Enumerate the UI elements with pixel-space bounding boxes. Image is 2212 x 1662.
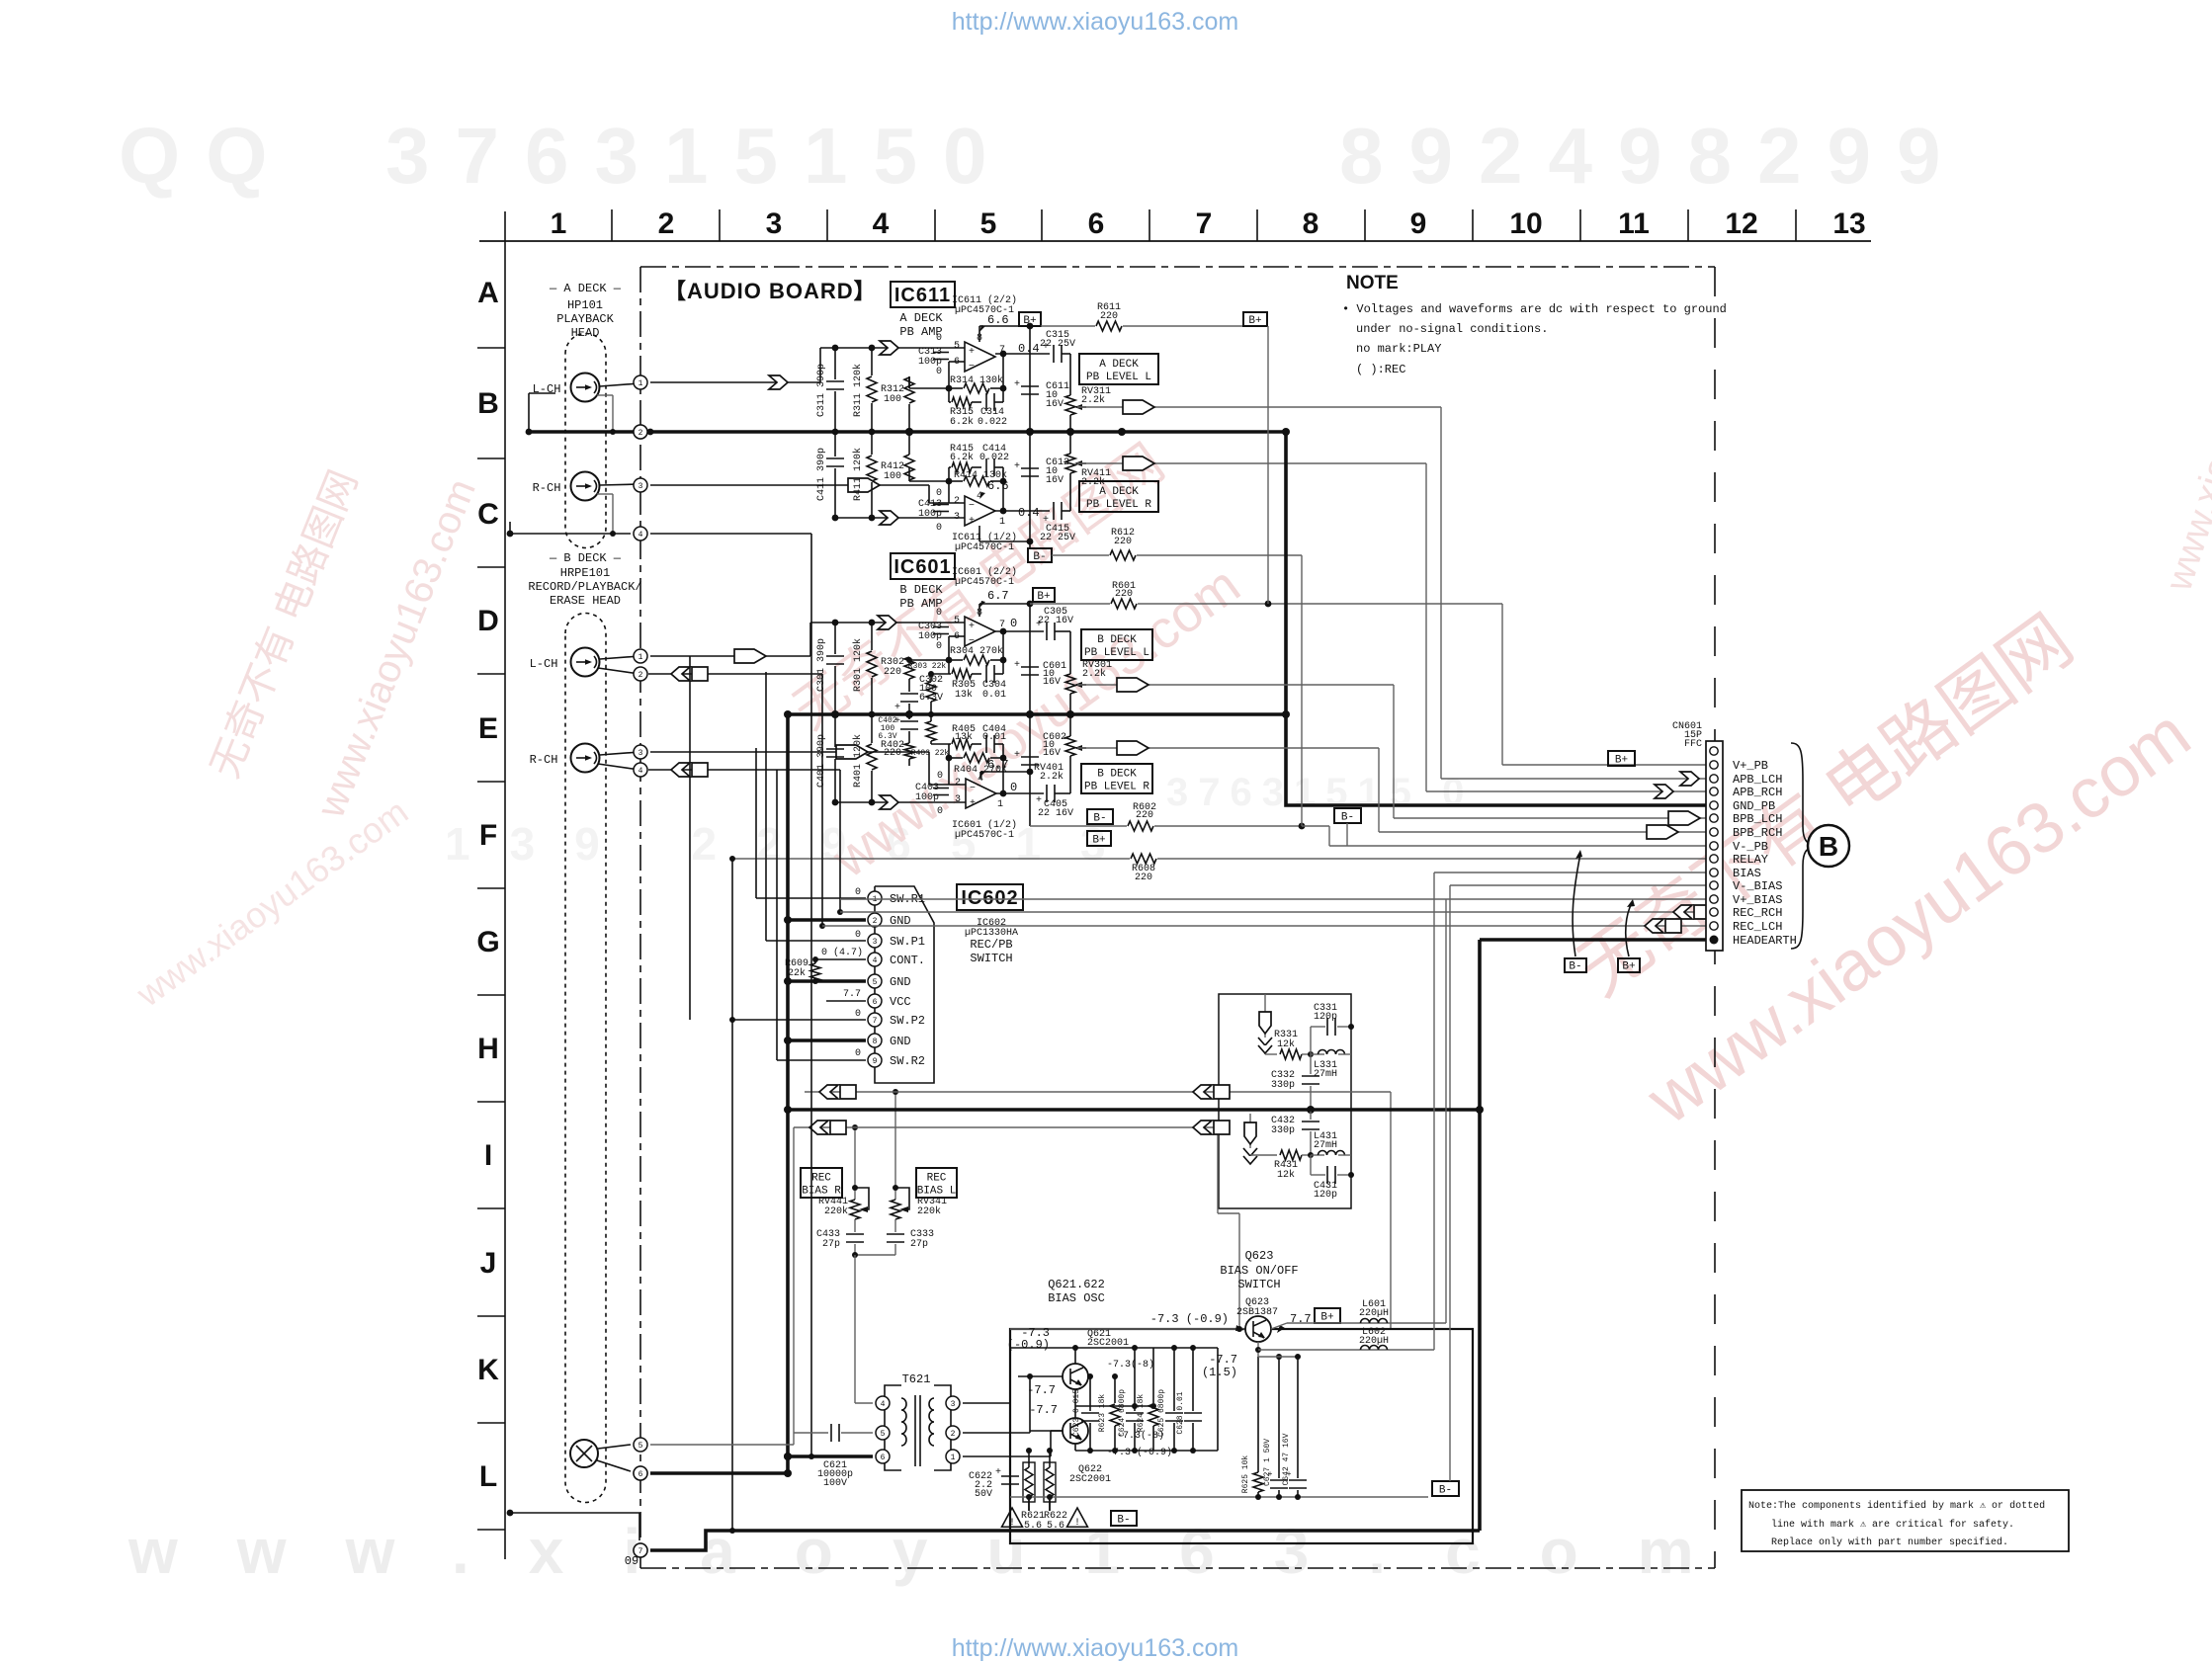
- svg-text:SW.P2: SW.P2: [890, 1014, 925, 1028]
- wire erase head to pins: [597, 1445, 631, 1471]
- resistor R623: [1098, 1373, 1120, 1451]
- svg-text:6.6: 6.6: [987, 313, 1009, 327]
- svg-text:B-: B-: [1439, 1484, 1452, 1496]
- wire IC602 pin4 cont: [815, 958, 866, 960]
- svg-text:+: +: [969, 347, 975, 358]
- capacitor C331: [1311, 1003, 1354, 1054]
- chevron rec lch: [671, 667, 708, 681]
- svg-text:5: 5: [881, 1430, 886, 1439]
- svg-text:0: 0: [855, 1009, 861, 1020]
- wire T621 pin4 feed: [855, 1396, 873, 1403]
- svg-text:-7.7: -7.7: [1027, 1383, 1056, 1397]
- svg-text:-7.7: -7.7: [1029, 1403, 1058, 1417]
- resistor R622 fusible: [1044, 1448, 1056, 1511]
- svg-text:50V: 50V: [975, 1489, 992, 1500]
- wire C333 to C433 join: [852, 1252, 895, 1396]
- label Q623 part: [1236, 1297, 1278, 1318]
- svg-text:6: 6: [873, 998, 878, 1007]
- IC602 label box: [957, 884, 1023, 910]
- svg-text:QQ: QQ: [119, 112, 293, 200]
- potentiometer RV441: [818, 1124, 869, 1232]
- safety note box: [1742, 1490, 2069, 1551]
- inductor L431: [1311, 1131, 1351, 1155]
- svg-text:100p: 100p: [918, 357, 942, 368]
- svg-text:7.7: 7.7: [1290, 1312, 1312, 1326]
- opamp IC611b: [965, 342, 995, 373]
- svg-text:REC: REC: [927, 1172, 947, 1184]
- resistor R311: [852, 345, 877, 436]
- svg-text:Q623: Q623: [1245, 1249, 1274, 1263]
- wire A-deck head lower shield: [507, 522, 631, 537]
- supply label B+ a1: [1019, 312, 1041, 327]
- IC611 label box: [891, 282, 955, 307]
- svg-text:+: +: [1036, 795, 1042, 806]
- svg-text:12k: 12k: [1277, 1169, 1295, 1181]
- svg-text:R623 18k: R623 18k: [1098, 1394, 1107, 1433]
- svg-text:GND_PB: GND_PB: [1733, 799, 1775, 813]
- pin 6 erase redraw: [634, 1466, 647, 1480]
- svg-text:120p: 120p: [1314, 1190, 1337, 1201]
- svg-text:SWITCH: SWITCH: [1237, 1278, 1280, 1291]
- pin 6 erase: [634, 1466, 647, 1480]
- IC601 sublabel: [899, 583, 943, 611]
- A-deck playback head R-CH: [533, 472, 600, 501]
- svg-text:GND: GND: [890, 1035, 911, 1048]
- svg-text:27p: 27p: [910, 1239, 928, 1250]
- supply label B+ a2: [1243, 312, 1267, 327]
- svg-text:7: 7: [1196, 208, 1213, 240]
- svg-text:220: 220: [884, 667, 901, 678]
- svg-text:K: K: [477, 1354, 499, 1386]
- label Q621 voltages: [1007, 1326, 1050, 1352]
- wire bias drop v803: [793, 1127, 795, 1435]
- svg-text:3: 3: [954, 512, 960, 523]
- svg-text:0: 0: [936, 367, 942, 377]
- svg-text:µPC4570C-1: µPC4570C-1: [955, 542, 1014, 553]
- wire A-deck L-CH head to pin 1: [600, 383, 639, 386]
- wire rec lch head link: [648, 673, 822, 675]
- pin 2 B-deck: [634, 667, 647, 681]
- resistor R624: [1137, 1348, 1158, 1451]
- capacitor C602: [1014, 714, 1066, 826]
- capacitor C302: [894, 675, 943, 717]
- svg-text:PB LEVEL R: PB LEVEL R: [1086, 499, 1151, 511]
- capacitor C625: [1157, 1348, 1183, 1451]
- wire IC602 pin2 gnd: [784, 916, 866, 924]
- svg-text:APB_LCH: APB_LCH: [1733, 773, 1782, 787]
- resistor R312: [881, 376, 949, 435]
- svg-text:BPB_LCH: BPB_LCH: [1733, 812, 1782, 826]
- chevron rec rch: [671, 763, 708, 777]
- svg-text:2: 2: [954, 496, 960, 507]
- transformer T621 left box: [885, 1385, 906, 1470]
- capacitor C431: [1311, 1155, 1354, 1201]
- wire B L input riser: [809, 623, 811, 656]
- wire IC611a output: [995, 510, 1050, 512]
- svg-text:R-CH: R-CH: [530, 753, 558, 767]
- svg-text:V-_BIAS: V-_BIAS: [1733, 879, 1782, 893]
- capacitor C402: [878, 711, 918, 741]
- IC602 pin 9 SW.R2: [868, 1053, 925, 1068]
- svg-text:3: 3: [766, 208, 783, 240]
- svg-text:12k: 12k: [1277, 1039, 1295, 1050]
- wire bias top rail: [1010, 1328, 1245, 1330]
- svg-text:C625 6800p: C625 6800p: [1157, 1389, 1166, 1437]
- svg-text:R401 120k: R401 120k: [852, 734, 864, 788]
- chevron bias upper mid: [1193, 1085, 1230, 1099]
- pentagon chevron BPB LCH: [1117, 678, 1149, 692]
- svg-text:2.2k: 2.2k: [1082, 668, 1106, 680]
- svg-text:120p: 120p: [1314, 1012, 1337, 1023]
- box REC BIAS R: [801, 1168, 842, 1198]
- audio board title: [664, 279, 877, 303]
- svg-text:330p: 330p: [1271, 1080, 1295, 1091]
- svg-text:C642 47 16V: C642 47 16V: [1282, 1433, 1291, 1485]
- svg-text:27mH: 27mH: [1314, 1069, 1337, 1080]
- capacitor C305: [1036, 607, 1073, 640]
- wire Q622 base: [1027, 1373, 1063, 1431]
- capacitor C303: [918, 622, 949, 642]
- potentiometer RV301: [1065, 631, 1112, 717]
- svg-text:1: 1: [951, 1454, 956, 1462]
- svg-text:2: 2: [658, 208, 675, 240]
- wire B pin1 to input: [650, 655, 810, 657]
- svg-text:4: 4: [873, 208, 890, 240]
- svg-text:IC602: IC602: [961, 887, 1018, 909]
- label Q623 voltages: [1150, 1312, 1312, 1333]
- wire C415 to RV411: [1062, 510, 1070, 512]
- svg-text:B+: B+: [1615, 754, 1628, 766]
- wire bias feed upper: [805, 1091, 1391, 1093]
- svg-text:13k: 13k: [955, 689, 973, 701]
- wire A shield v821: [650, 534, 814, 1459]
- wire IC601b vplus: [979, 601, 1033, 617]
- opamp IC601a voltage marks: [937, 771, 1017, 817]
- A-deck head shield dashed stadium: [565, 333, 606, 547]
- wire T621 pin6 gnd: [784, 1453, 873, 1460]
- opamp IC601b: [965, 617, 995, 647]
- resistor R401: [852, 714, 877, 805]
- svg-text:V+_BIAS: V+_BIAS: [1733, 893, 1782, 907]
- supply label B+ b3: [1087, 831, 1111, 846]
- wire ground bus B deck: [788, 710, 1286, 718]
- wire Q621 emitter rail: [1075, 1389, 1156, 1409]
- potentiometer RV401: [1034, 714, 1086, 793]
- svg-text:RECORD/PLAYBACK/: RECORD/PLAYBACK/: [528, 580, 641, 594]
- svg-text:220: 220: [1135, 873, 1152, 883]
- arrow marker upper: [1258, 1012, 1272, 1053]
- svg-text:0: 0: [855, 1048, 861, 1059]
- svg-text:220: 220: [1100, 311, 1118, 322]
- svg-text:B+: B+: [1092, 834, 1105, 846]
- svg-text:0: 0: [937, 806, 943, 817]
- svg-text:16V: 16V: [1046, 475, 1063, 486]
- watermark url top: [952, 8, 1238, 36]
- svg-text:A DECK: A DECK: [899, 311, 943, 325]
- svg-text:7: 7: [873, 1017, 878, 1026]
- wire IC601a feedback risers: [949, 744, 1006, 796]
- svg-text:VCC: VCC: [890, 995, 911, 1009]
- capacitor C611: [1014, 326, 1069, 435]
- svg-text:5: 5: [638, 1442, 643, 1451]
- svg-text:B-: B-: [1341, 811, 1354, 823]
- svg-text:3: 3: [873, 938, 878, 947]
- resistor R431: [1250, 1150, 1314, 1181]
- svg-text:HP101: HP101: [567, 298, 603, 312]
- pin 1 A-deck: [634, 375, 647, 389]
- resistor R305: [949, 669, 981, 701]
- svg-text:BIAS ON/OFF: BIAS ON/OFF: [1220, 1264, 1298, 1278]
- resistor R315: [949, 397, 981, 428]
- svg-text:B DECK: B DECK: [1097, 634, 1137, 646]
- svg-text:4: 4: [873, 956, 878, 965]
- capacitor C622: [969, 1457, 1019, 1500]
- inductor L602: [1359, 1327, 1389, 1350]
- wire filter feed upper: [1264, 994, 1266, 1054]
- svg-text:5: 5: [954, 616, 960, 626]
- wire B-deck L-CH head wires: [598, 656, 639, 674]
- svg-text:3: 3: [638, 482, 643, 491]
- svg-text:0: 0: [936, 641, 942, 652]
- svg-text:3: 3: [951, 1400, 956, 1409]
- svg-text:µPC4570C-1: µPC4570C-1: [955, 830, 1014, 841]
- svg-text:IC601: IC601: [893, 556, 951, 578]
- audio board border: [640, 267, 1715, 1568]
- wire V+BIAS run: [840, 899, 1706, 1323]
- transformer T621 right box: [929, 1385, 951, 1470]
- transformer T621 core: [915, 1395, 920, 1466]
- svg-text:+: +: [969, 516, 975, 527]
- wire bias rail A: [1010, 1345, 1218, 1351]
- svg-text:8: 8: [1303, 208, 1319, 240]
- capacitor C315: [1040, 330, 1075, 363]
- capacitor C314: [978, 393, 1007, 428]
- wire rec lch riser: [819, 674, 825, 929]
- watermark pink middle: [783, 433, 1250, 889]
- svg-text:−: −: [970, 784, 976, 794]
- svg-text:16V: 16V: [1043, 677, 1061, 688]
- IC601 (2/2) label: [952, 566, 1017, 588]
- wire Q623 collector out: [1271, 1323, 1446, 1329]
- svg-text:−: −: [969, 501, 975, 512]
- resistor R403: [911, 711, 950, 758]
- svg-text:R314 130k: R314 130k: [950, 374, 1003, 386]
- mode arrow B-: [1573, 850, 1582, 956]
- wire IC601b output: [995, 630, 1044, 632]
- arrow marker lower: [1243, 1122, 1257, 1164]
- svg-text:+: +: [1014, 660, 1020, 671]
- resistor R412: [881, 428, 949, 482]
- wire A R noninv: [835, 517, 965, 519]
- capacitor C432: [1271, 1110, 1319, 1155]
- wire rec rch head link: [648, 769, 840, 771]
- wire A L input riser: [819, 348, 821, 382]
- label 6.7 b: [979, 758, 1009, 778]
- note text: [1342, 302, 1727, 376]
- IC602 pin 1 SW.R1: [868, 891, 925, 906]
- svg-text:100V: 100V: [823, 1478, 847, 1489]
- svg-text:220: 220: [1136, 810, 1153, 821]
- capacitor C333: [887, 1229, 934, 1255]
- resistor R303: [908, 662, 949, 717]
- svg-text:Q621.622: Q621.622: [1048, 1278, 1105, 1291]
- label Q621 part: [1087, 1329, 1129, 1349]
- svg-text:2.2k: 2.2k: [1040, 771, 1063, 783]
- svg-text:J: J: [480, 1247, 497, 1280]
- chevron on A L input 2: [880, 341, 898, 355]
- svg-text:GND: GND: [890, 975, 911, 989]
- capacitor C401: [816, 714, 844, 805]
- svg-text:G: G: [476, 926, 499, 958]
- svg-text:1: 1: [638, 653, 643, 662]
- svg-text:6.7: 6.7: [987, 758, 1009, 772]
- svg-text:9: 9: [1410, 208, 1427, 240]
- wire headearth bus: [788, 1108, 1480, 1112]
- svg-text:B+: B+: [1037, 591, 1050, 603]
- pin 5 erase: [634, 1438, 647, 1452]
- svg-text:2: 2: [873, 917, 878, 926]
- svg-text:1: 1: [638, 379, 643, 388]
- capacitor C601: [1014, 604, 1066, 717]
- warning triangle R621: [1002, 1508, 1023, 1529]
- svg-text:0: 0: [937, 771, 943, 782]
- svg-text:!: !: [1009, 1518, 1015, 1529]
- wire Q621 base: [1018, 1375, 1063, 1377]
- svg-text:6: 6: [1088, 208, 1105, 240]
- svg-text:220µH: 220µH: [1359, 1336, 1389, 1347]
- resistor R611: [1041, 302, 1243, 331]
- svg-text:B-: B-: [1093, 812, 1106, 824]
- svg-text:22 16V: 22 16V: [1038, 808, 1073, 819]
- svg-text:R303 22k: R303 22k: [908, 662, 947, 671]
- T621 pin 5: [876, 1426, 890, 1440]
- svg-text:B: B: [1819, 831, 1838, 862]
- IC602 voltage marks: [821, 887, 863, 1059]
- capacitor C301: [816, 620, 844, 718]
- svg-text:C627 1 50V: C627 1 50V: [1263, 1439, 1272, 1486]
- svg-text:-7.7: -7.7: [1209, 1353, 1237, 1367]
- label Q621 b voltage: [1027, 1383, 1056, 1397]
- capacitor C405: [1036, 785, 1073, 819]
- capacitor C621: [817, 1424, 873, 1489]
- capacitor C624: [1118, 1348, 1144, 1454]
- svg-text:L: L: [479, 1460, 497, 1493]
- pentagon chevron APB RCH: [1123, 457, 1154, 470]
- wire APB LCH run: [1077, 407, 1706, 779]
- svg-text:BIAS R: BIAS R: [802, 1185, 841, 1197]
- wire A-deck head shield to ground: [526, 393, 555, 435]
- svg-text:100: 100: [884, 394, 901, 405]
- label Q622 voltages: [1029, 1403, 1172, 1458]
- svg-text:1: 1: [999, 517, 1005, 528]
- label B-deck head: [528, 551, 641, 608]
- svg-text:27p: 27p: [822, 1239, 840, 1250]
- svg-text:— B DECK —: — B DECK —: [549, 551, 622, 565]
- svg-text:(-0.9): (-0.9): [1007, 1338, 1050, 1352]
- wire ground bus A deck: [529, 428, 1286, 436]
- svg-text:1: 1: [551, 208, 567, 240]
- resistor R612: [1052, 528, 1302, 560]
- svg-text:B+: B+: [1023, 315, 1036, 327]
- border row labels: [476, 277, 499, 1493]
- svg-text:11: 11: [1618, 208, 1650, 240]
- supply label B+ cn: [1608, 751, 1635, 766]
- svg-text:22 16V: 22 16V: [1038, 616, 1073, 626]
- wire BPB LCH run: [1077, 685, 1706, 818]
- svg-text:NOTE: NOTE: [1346, 273, 1399, 293]
- wire A pin1 to input: [650, 381, 820, 383]
- svg-text:9: 9: [873, 1057, 878, 1066]
- label 09: [625, 1554, 638, 1568]
- border left line: [504, 211, 506, 1559]
- wire Q622 emitter rail: [1075, 1348, 1218, 1454]
- wire pin6 head gnd: [650, 1469, 792, 1477]
- IC611 (2/2) label: [952, 294, 1017, 316]
- chevron on A R input 2: [880, 511, 898, 525]
- svg-text:µPC4570C-1: µPC4570C-1: [955, 577, 1014, 588]
- svg-text:-7.3 (-0.9): -7.3 (-0.9): [1150, 1312, 1229, 1326]
- chevron bias lower mid: [1193, 1121, 1230, 1134]
- svg-text:+: +: [1014, 750, 1020, 761]
- svg-text:2.2k: 2.2k: [1081, 394, 1105, 406]
- capacitor C415: [1040, 502, 1075, 543]
- svg-text:+: +: [970, 798, 976, 809]
- svg-text:6.6: 6.6: [987, 479, 1009, 493]
- wire T621 pin5 feed: [650, 1433, 828, 1445]
- IC602 pin 7 SW.P2: [868, 1013, 925, 1028]
- wire A R inverting riser: [929, 485, 965, 503]
- svg-text:C624 6800p: C624 6800p: [1118, 1389, 1127, 1437]
- svg-text:0: 0: [1010, 781, 1017, 794]
- wire V-PB run: [1302, 555, 1706, 846]
- resistor R411: [852, 432, 877, 521]
- wire A L input top: [820, 347, 965, 349]
- wire pin7 shield: [650, 1531, 1480, 1550]
- watermark pink left lower: [128, 790, 415, 1015]
- svg-text:V-_PB: V-_PB: [1733, 840, 1768, 854]
- border ruler top: [479, 209, 1871, 241]
- svg-text:220: 220: [1114, 537, 1132, 547]
- svg-text:BIAS: BIAS: [1733, 867, 1761, 880]
- wire C305 to RV301: [1055, 630, 1070, 632]
- svg-text:BIAS L: BIAS L: [917, 1185, 957, 1197]
- capacitor C403: [915, 783, 949, 803]
- svg-text:220k: 220k: [917, 1205, 941, 1217]
- wire IC601b feedback risers: [949, 628, 1006, 674]
- svg-text:5: 5: [873, 978, 878, 987]
- svg-text:+: +: [1014, 379, 1020, 390]
- capacitor C623: [1072, 1373, 1099, 1451]
- svg-text:B+: B+: [1248, 315, 1261, 327]
- connector CN601 pin labels: [1733, 759, 1797, 948]
- resistor R331: [1265, 1030, 1314, 1059]
- opamp IC611b pin numbers: [954, 333, 1005, 368]
- svg-text:0.022: 0.022: [979, 453, 1009, 463]
- svg-text:Note:The components identified: Note:The components identified by mark ⚠…: [1748, 1500, 2045, 1512]
- svg-text:http://www.xiaoyu163.com: http://www.xiaoyu163.com: [952, 8, 1238, 36]
- svg-text:REC: REC: [811, 1172, 831, 1184]
- wire IC602 pin6 vcc: [826, 1000, 866, 1002]
- svg-text:• Voltages and waveforms are d: • Voltages and waveforms are dc with res…: [1342, 302, 1727, 316]
- T621 pin 3: [946, 1396, 960, 1410]
- svg-text:2SC2001: 2SC2001: [1087, 1338, 1129, 1349]
- svg-text:3: 3: [955, 794, 961, 805]
- label Q623 emitter voltage: [1202, 1353, 1237, 1379]
- wire harness v786: [776, 770, 778, 1060]
- svg-text:R311 120k: R311 120k: [852, 364, 864, 417]
- svg-text:ERASE HEAD: ERASE HEAD: [550, 594, 621, 608]
- svg-text:6.7: 6.7: [987, 589, 1009, 603]
